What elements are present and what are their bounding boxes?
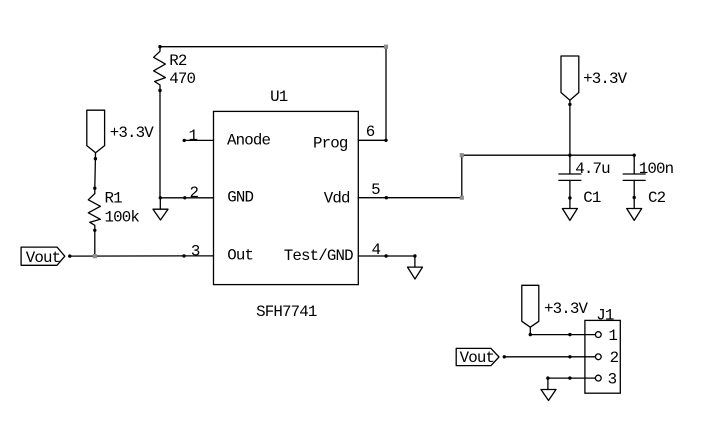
power: +3.3V supply (J1) (522, 285, 539, 336)
junction: pin4 gnd corner dot (413, 254, 416, 257)
ground: GND symbol below pin2 wire (153, 198, 168, 220)
svg-text:+3.3V: +3.3V (583, 70, 628, 88)
svg-text:1: 1 (608, 327, 617, 345)
svg-text:4.7u: 4.7u (575, 160, 610, 178)
junction: gray square lower Vdd corner (460, 196, 464, 200)
junction: R2 top dot (158, 45, 161, 48)
power: +3.3V supply (left) (87, 110, 105, 160)
junction: bus/C1 junction dot (568, 154, 571, 157)
U1 pin 5 (358, 181, 388, 199)
junction: R1 bottom dot (93, 229, 96, 232)
junction: J1 pin2 end dot (568, 355, 571, 358)
junction: Vout J1 tip dot (503, 355, 506, 358)
wire: vertical down to U1 pin 6 (385, 47, 387, 141)
wire: Vdd bus to capacitors (462, 154, 634, 156)
ground: GND symbol under C1 (562, 198, 577, 220)
connector J1 pin 1 (570, 327, 618, 345)
svg-text:+3.3V: +3.3V (544, 300, 589, 318)
svg-text:6: 6 (366, 123, 375, 141)
U1 pin 3 (182, 242, 213, 260)
svg-text:100n: 100n (639, 160, 674, 178)
connector J1 body box (585, 320, 620, 393)
junction: R2 bottom dot (158, 89, 161, 92)
connector J1 pin 2 (570, 349, 619, 367)
svg-text:Test/GND: Test/GND (284, 247, 353, 265)
U1 pin 4 (358, 241, 388, 259)
wire: pin 4 to ground corner (386, 255, 415, 257)
svg-text:Anode: Anode (227, 132, 271, 150)
svg-text:SFH7741: SFH7741 (256, 303, 317, 321)
wire: pin2 row from corner to pin 2 (160, 197, 185, 199)
wire: Vout to U1 pin 3 (70, 255, 184, 257)
junction: R1 top dot (93, 187, 96, 190)
junction: Vout flag tip dot (68, 254, 71, 257)
wire: supply to R1 (94, 159, 97, 189)
op-amp U1 body box (214, 111, 359, 284)
power: +3.3V supply (top right) (561, 56, 579, 106)
node Vout: net flag (left) (21, 247, 65, 267)
svg-text:470: 470 (169, 70, 195, 88)
svg-text:Vout: Vout (460, 349, 495, 367)
junction: bus/C2 junction dot (633, 154, 636, 157)
ground: GND symbol for pin 4 (408, 256, 423, 279)
svg-text:J1: J1 (596, 307, 614, 325)
node Vout: net flag (J1) (456, 348, 499, 367)
wire: top bus from R2 to corner (160, 46, 386, 48)
connector J1 pin 3 (570, 371, 617, 389)
junction: corner dot at GND tap (159, 196, 162, 199)
ground: GND symbol under C2 (627, 198, 642, 221)
svg-text:Vout: Vout (26, 249, 61, 267)
resistor R1 (88, 188, 100, 230)
wire: pin 5 to corner (386, 197, 462, 199)
U1 pin 6 (358, 123, 386, 141)
wire: supply to J1 pin 1 (530, 334, 570, 336)
svg-text:Prog: Prog (313, 135, 348, 153)
svg-text:2: 2 (610, 349, 619, 367)
svg-text:2: 2 (190, 184, 199, 202)
svg-text:4: 4 (372, 241, 381, 259)
svg-text:U1: U1 (270, 88, 288, 106)
wire: R2 bottom down to pin2 row (159, 91, 161, 198)
svg-text:3: 3 (191, 242, 200, 260)
svg-text:R2: R2 (169, 52, 187, 70)
svg-text:+3.3V: +3.3V (110, 124, 155, 142)
svg-text:Vdd: Vdd (324, 190, 350, 208)
junction: U1 pin 6 end dot (384, 139, 387, 142)
svg-text:Out: Out (227, 247, 253, 265)
ground: GND symbol at J1 pin 3 (541, 376, 556, 400)
U1 pin 1 (183, 127, 214, 145)
svg-text:C2: C2 (648, 189, 666, 207)
svg-text:1: 1 (189, 127, 198, 145)
junction: gray corner square top bus (384, 45, 388, 49)
junction: gray square at R1/Vout junction (93, 254, 97, 258)
junction: gray square upper Vdd corner (460, 153, 464, 157)
wire: R1 bottom to Vout net (94, 230, 96, 256)
svg-text:5: 5 (371, 181, 380, 199)
wire: supply drop to bus (569, 104, 571, 155)
wire: vertical Vdd riser (461, 155, 463, 198)
junction: J1 pin3 end dot (568, 376, 571, 379)
svg-text:GND: GND (227, 188, 253, 206)
U1 pin 2 (183, 184, 213, 202)
svg-text:R1: R1 (105, 190, 123, 208)
wire: Vout to J1 pin 2 (504, 356, 570, 358)
resistor R2 (154, 47, 166, 91)
svg-text:C1: C1 (583, 189, 601, 207)
svg-text:3: 3 (608, 371, 617, 389)
svg-text:100k: 100k (105, 208, 140, 226)
capacitor C2 (623, 155, 645, 199)
junction: J1 pin1 end dot (568, 333, 571, 336)
wire: gnd corner to J1 pin 3 (548, 377, 570, 379)
capacitor C1 (559, 155, 581, 200)
